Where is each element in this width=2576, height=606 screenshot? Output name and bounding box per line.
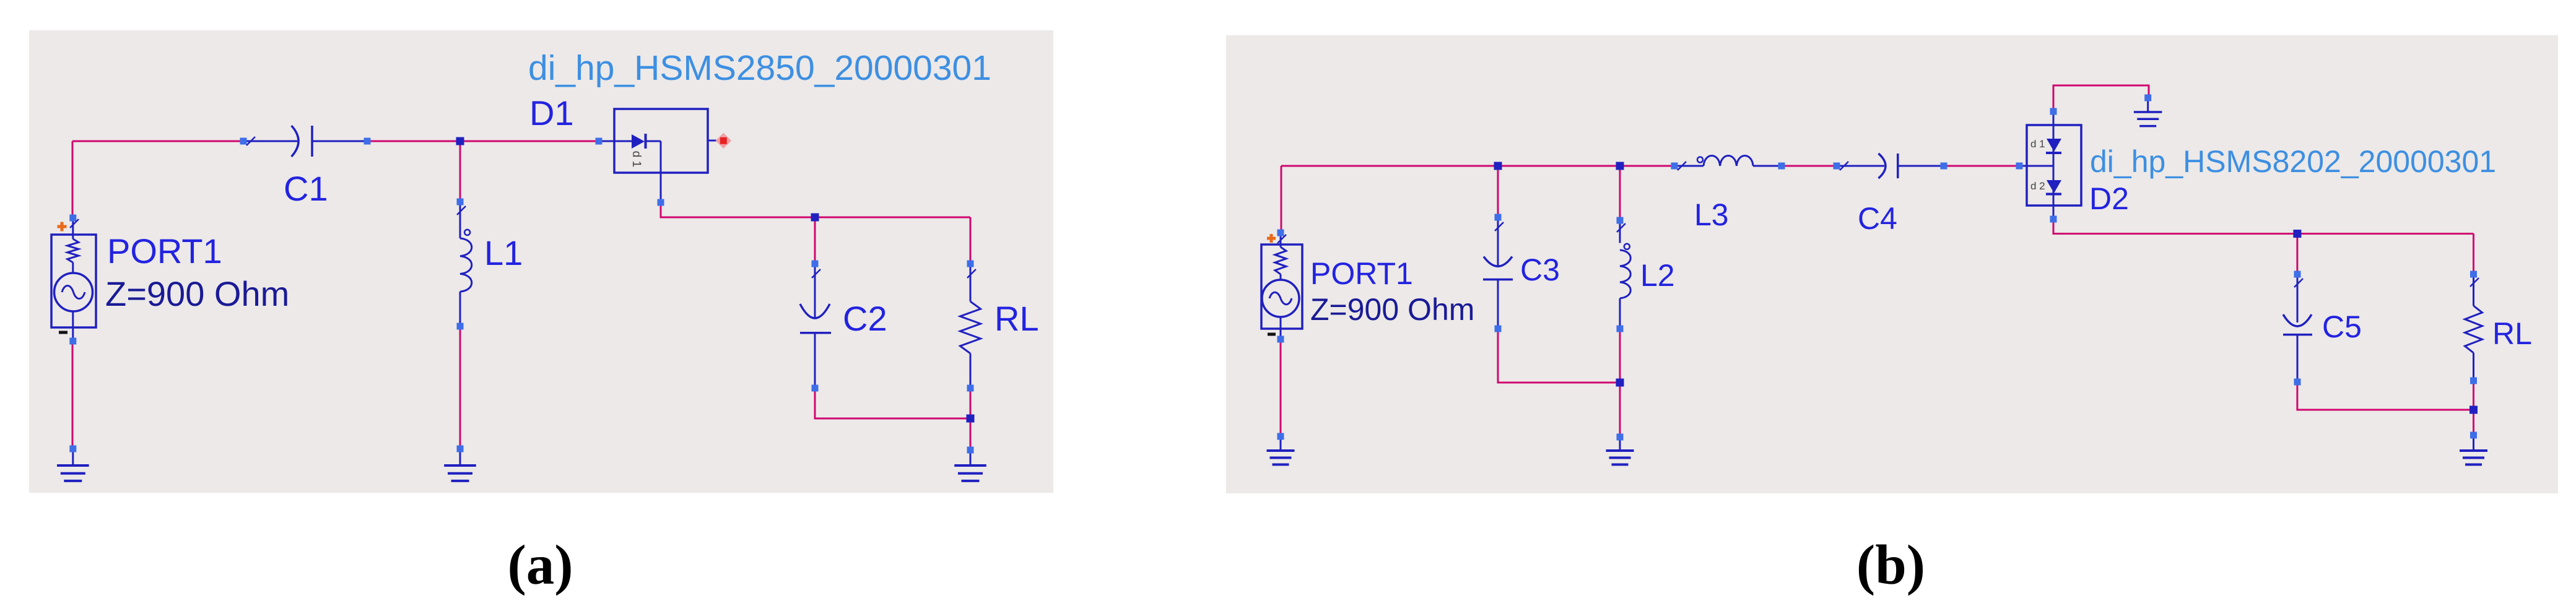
svg-text:D1: D1 [529,93,574,132]
svg-text:D2: D2 [2089,181,2129,216]
svg-text:d 2: d 2 [2030,180,2045,192]
svg-text:C5: C5 [2322,309,2362,344]
svg-text:Z=900 Ohm: Z=900 Ohm [105,274,289,313]
svg-text:d 1: d 1 [2030,138,2045,150]
svg-text:L2: L2 [1640,258,1675,293]
svg-text:L3: L3 [1694,197,1729,232]
svg-text:d 1: d 1 [630,151,643,167]
svg-text:(a): (a) [507,534,573,596]
svg-text:RL: RL [994,299,1039,338]
svg-text:C3: C3 [1520,253,1560,287]
svg-text:(b): (b) [1856,534,1925,596]
svg-text:C4: C4 [1858,201,1897,236]
svg-text:PORT1: PORT1 [1310,256,1413,291]
svg-text:di_hp_HSMS8202_20000301: di_hp_HSMS8202_20000301 [2090,144,2496,179]
svg-text:C2: C2 [843,299,887,338]
svg-text:Z=900 Ohm: Z=900 Ohm [1310,292,1474,327]
svg-text:di_hp_HSMS2850_20000301: di_hp_HSMS2850_20000301 [528,48,991,88]
svg-text:PORT1: PORT1 [107,232,222,271]
svg-text:L1: L1 [484,233,523,272]
svg-text:C1: C1 [284,169,328,208]
svg-text:RL: RL [2492,316,2532,351]
